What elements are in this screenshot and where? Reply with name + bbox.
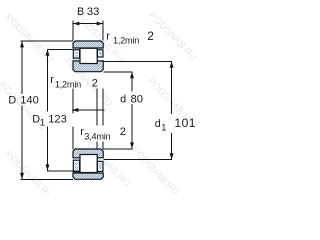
svg-text:2: 2 bbox=[120, 126, 126, 138]
wire B extension left bbox=[72, 20, 74, 40]
wire d1 dimension line upper bbox=[171, 61, 173, 114]
bearing lower inner ring bbox=[73, 149, 103, 158]
wire r34 leader vertical mid lower bbox=[96, 142, 98, 150]
svg-text:B: B bbox=[77, 6, 84, 18]
bearing upper inner ring bbox=[73, 61, 103, 72]
svg-text:33: 33 bbox=[87, 6, 99, 18]
arrow r34 leader left bbox=[72, 108, 78, 112]
arrow D1 up bbox=[46, 49, 50, 55]
bearing lower outer ring bbox=[73, 173, 103, 179]
svg-text:1,2min: 1,2min bbox=[55, 79, 81, 89]
svg-text:1,2min: 1,2min bbox=[113, 36, 139, 46]
svg-text:d: d bbox=[120, 94, 126, 106]
wire D1 dimension line lower bbox=[47, 127, 49, 171]
wire B extension right bbox=[102, 20, 104, 40]
wire d extension bottom bbox=[103, 148, 133, 150]
arrow B right bbox=[97, 22, 103, 26]
arrow D down bbox=[20, 173, 24, 179]
wire d dimension line upper bbox=[131, 72, 133, 92]
bearing upper right cage box bbox=[97, 50, 103, 57]
svg-text:2: 2 bbox=[92, 77, 98, 89]
wire D dimension line upper bbox=[21, 41, 23, 94]
wire d1 dimension line lower bbox=[171, 133, 173, 160]
arrow D1 down bbox=[46, 164, 50, 170]
wire D1 dimension line upper bbox=[47, 49, 49, 111]
wire r34 leader vertical left upper bbox=[72, 89, 74, 114]
svg-text:2: 2 bbox=[147, 29, 154, 43]
svg-text:80: 80 bbox=[131, 94, 143, 106]
arrow D up bbox=[20, 41, 24, 47]
svg-text:r: r bbox=[50, 74, 54, 86]
arrow d1 up bbox=[170, 61, 174, 67]
bearing lower left cage box bbox=[73, 160, 79, 172]
wire B dimension line bbox=[73, 23, 103, 25]
arrow d up bbox=[130, 72, 134, 78]
bearing lower roller bbox=[80, 155, 97, 173]
bearing upper left cage box bbox=[73, 50, 79, 58]
wire D extension bottom bbox=[21, 178, 73, 180]
wire D1 extension bottom overlay into bearing bbox=[74, 170, 80, 172]
svg-text:1: 1 bbox=[40, 117, 45, 127]
arrow d1 down bbox=[170, 153, 174, 159]
wire r34 leader vertical left lower bbox=[72, 127, 74, 150]
svg-text:D: D bbox=[8, 95, 16, 107]
svg-text:r: r bbox=[106, 30, 110, 42]
svg-text:123: 123 bbox=[48, 114, 67, 126]
bearing lower right cage box bbox=[97, 161, 103, 171]
wire d dimension line lower bbox=[131, 104, 133, 149]
wire D1 extension top bbox=[47, 48, 73, 50]
wire r34 leader vertical right lower bbox=[102, 142, 104, 150]
svg-text:3,4min: 3,4min bbox=[84, 131, 110, 141]
wire D1 extension bottom bbox=[47, 170, 74, 172]
wire r34 leader vertical right upper bbox=[102, 89, 104, 126]
arrow d down bbox=[130, 142, 134, 148]
wire d extension top bbox=[104, 71, 133, 73]
svg-text:101: 101 bbox=[175, 116, 196, 130]
wire d1 extension bottom bbox=[104, 159, 172, 161]
wire d1 extension top bbox=[104, 60, 172, 62]
svg-text:140: 140 bbox=[20, 95, 39, 107]
arrow B left bbox=[73, 22, 79, 26]
wire D extension top bbox=[21, 40, 73, 42]
wire r34 leader vertical mid upper bbox=[96, 89, 98, 126]
wire r34 leader horizontal bbox=[72, 109, 104, 111]
wire D dimension line lower bbox=[21, 106, 23, 180]
svg-text:d: d bbox=[155, 118, 161, 130]
bearing upper roller bbox=[80, 48, 97, 63]
bearing upper outer ring bbox=[73, 41, 103, 48]
svg-text:1: 1 bbox=[161, 122, 166, 132]
